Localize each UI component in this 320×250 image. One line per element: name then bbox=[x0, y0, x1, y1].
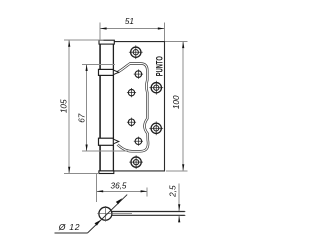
screw hole H8 (double circle) bbox=[129, 155, 143, 169]
svg-text:Ø 12: Ø 12 bbox=[58, 222, 80, 232]
svg-text:67: 67 bbox=[77, 113, 86, 123]
svg-text:2,5: 2,5 bbox=[169, 185, 178, 198]
screw hole H4 (single) bbox=[127, 88, 136, 97]
dimension 100 bbox=[165, 41, 187, 170]
screw hole H6 (double circle) bbox=[149, 121, 163, 135]
dimension 2.5 bbox=[179, 184, 185, 222]
knuckle block upper bbox=[99, 69, 114, 75]
svg-text:100: 100 bbox=[172, 95, 181, 109]
svg-text:36,5: 36,5 bbox=[111, 182, 127, 191]
screw hole H1 (double circle) bbox=[129, 45, 143, 59]
dimension 105 bbox=[64, 40, 104, 173]
knuckle block lower bbox=[99, 138, 114, 145]
bottom view barrel circle bbox=[99, 207, 112, 220]
barrel bottom cap bbox=[99, 171, 114, 174]
svg-text:PUNTO: PUNTO bbox=[155, 56, 165, 76]
svg-text:51: 51 bbox=[125, 17, 134, 26]
dimension 67 bbox=[82, 64, 128, 151]
knuckle tab upper bbox=[113, 70, 118, 75]
leaf plate outline (front view) bbox=[99, 42, 165, 171]
dimension 36.5 bbox=[97, 174, 148, 202]
dimension 51 bbox=[100, 23, 165, 42]
bottom view circle centerlines bbox=[97, 206, 132, 222]
barrel bar edges bbox=[100, 44, 113, 171]
bottom view leaf bar bbox=[112, 212, 185, 216]
diameter leader Ø12 bbox=[55, 195, 128, 233]
leaf plate hidden left edge bbox=[99, 42, 101, 171]
barrel top cap bbox=[99, 40, 114, 44]
screw hole H2 (single) bbox=[134, 69, 143, 78]
leaf dividing contour double line bbox=[118, 64, 149, 152]
leader arrowhead lower bbox=[95, 220, 102, 226]
leader arrowhead upper bbox=[116, 198, 123, 204]
screw hole H7 (single) bbox=[134, 137, 143, 146]
screw hole H3 (double circle) bbox=[149, 81, 163, 95]
knuckle tab lower bbox=[113, 139, 118, 144]
svg-text:105: 105 bbox=[60, 99, 69, 113]
screw hole H5 (single) bbox=[127, 118, 136, 127]
